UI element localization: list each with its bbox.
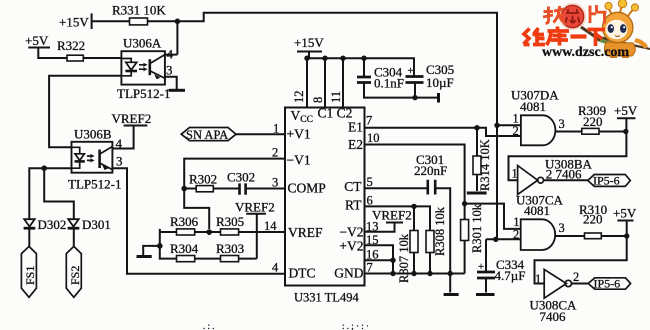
svg-text:: . ; · : ·: : . ; · : · xyxy=(342,321,369,330)
svg-text:4: 4 xyxy=(167,47,174,62)
svg-text:R308 10k: R308 10k xyxy=(433,206,447,256)
svg-text:VREF2: VREF2 xyxy=(235,200,275,215)
svg-text:14: 14 xyxy=(264,219,277,233)
svg-text:. : .: . : . xyxy=(203,321,215,330)
svg-text:13: 13 xyxy=(366,220,379,234)
svg-text:8: 8 xyxy=(311,97,325,103)
svg-text:C1 C2: C1 C2 xyxy=(318,106,353,121)
svg-text:3: 3 xyxy=(116,154,123,169)
svg-text:3: 3 xyxy=(166,63,173,78)
svg-text:2 7406: 2 7406 xyxy=(546,167,582,182)
svg-text:−V2: −V2 xyxy=(339,225,363,240)
svg-text:R301 10k: R301 10k xyxy=(470,203,484,253)
svg-text:4081: 4081 xyxy=(520,99,546,114)
svg-text:11: 11 xyxy=(329,91,343,103)
svg-text:220nF: 220nF xyxy=(414,163,447,178)
svg-text:D301: D301 xyxy=(82,217,111,232)
svg-text:U306B: U306B xyxy=(74,127,112,142)
svg-text:7: 7 xyxy=(366,114,372,128)
svg-text:VREF2: VREF2 xyxy=(112,111,152,126)
svg-text:U306A: U306A xyxy=(123,36,162,51)
svg-text:12: 12 xyxy=(292,91,306,104)
svg-text:E1: E1 xyxy=(348,120,363,135)
svg-text:2: 2 xyxy=(513,124,519,138)
svg-text:+15V: +15V xyxy=(294,35,324,50)
svg-text:R304: R304 xyxy=(170,241,199,256)
svg-text:+: + xyxy=(408,65,414,77)
svg-text:10: 10 xyxy=(367,131,380,145)
svg-text:+5V: +5V xyxy=(614,103,638,118)
svg-text:FS1: FS1 xyxy=(23,266,37,285)
svg-text:D302: D302 xyxy=(38,217,67,232)
svg-text:IP5-6: IP5-6 xyxy=(593,174,620,188)
svg-text:2: 2 xyxy=(272,146,278,160)
svg-text:+15V: +15V xyxy=(59,15,89,30)
svg-text:1: 1 xyxy=(512,167,518,181)
svg-text:R302: R302 xyxy=(189,172,217,187)
svg-text:+5V: +5V xyxy=(613,206,637,221)
svg-text:+: + xyxy=(478,261,484,273)
svg-text:5: 5 xyxy=(367,175,373,189)
svg-text:E2: E2 xyxy=(348,137,363,152)
svg-text:COMP: COMP xyxy=(288,180,326,195)
svg-text:RT: RT xyxy=(345,198,362,213)
svg-text:16: 16 xyxy=(366,248,379,262)
svg-text:220: 220 xyxy=(583,114,603,129)
svg-text:4.7µF: 4.7µF xyxy=(495,268,526,283)
svg-text:C302: C302 xyxy=(227,170,255,185)
svg-text:IP5-6: IP5-6 xyxy=(594,277,621,291)
svg-text:3: 3 xyxy=(559,117,565,131)
svg-text:1: 1 xyxy=(273,122,279,136)
svg-text:7: 7 xyxy=(367,261,373,275)
svg-text:www.dzsc.com: www.dzsc.com xyxy=(542,45,629,60)
svg-text:+5V: +5V xyxy=(25,33,49,48)
svg-text:SN APA: SN APA xyxy=(186,128,228,142)
svg-text:R303: R303 xyxy=(216,241,244,256)
svg-text:GND: GND xyxy=(334,266,363,281)
svg-text:CT: CT xyxy=(344,179,362,194)
svg-text:FS2: FS2 xyxy=(68,266,82,285)
svg-text:VREF: VREF xyxy=(288,225,323,240)
svg-text:+V1: +V1 xyxy=(287,127,311,142)
svg-text:3: 3 xyxy=(272,176,278,190)
svg-text:2: 2 xyxy=(513,227,519,241)
svg-text:6: 6 xyxy=(367,194,373,208)
svg-text:R331 10K: R331 10K xyxy=(112,3,166,18)
svg-text:7406: 7406 xyxy=(540,309,567,324)
svg-text:15: 15 xyxy=(366,233,379,247)
svg-text:R305: R305 xyxy=(216,214,244,229)
svg-text:R314 10K: R314 10K xyxy=(478,139,492,191)
svg-text:R307 10k: R307 10k xyxy=(397,233,411,283)
svg-text:VCC: VCC xyxy=(291,108,313,125)
svg-text:10µF: 10µF xyxy=(426,75,454,90)
svg-text:3: 3 xyxy=(559,221,565,235)
svg-text:4: 4 xyxy=(272,261,279,275)
svg-text:4: 4 xyxy=(116,136,123,151)
svg-text:DTC: DTC xyxy=(289,266,316,281)
svg-text:R322: R322 xyxy=(57,38,85,53)
svg-text:TLP512-1: TLP512-1 xyxy=(68,177,121,192)
svg-text:0.1nF: 0.1nF xyxy=(374,76,404,91)
svg-text:+V2: +V2 xyxy=(339,239,363,254)
svg-text:−V1: −V1 xyxy=(287,153,311,168)
svg-text:TLP512-1: TLP512-1 xyxy=(117,86,170,101)
svg-text:1: 1 xyxy=(535,272,541,286)
svg-text:U331 TL494: U331 TL494 xyxy=(294,291,359,305)
svg-text:R306: R306 xyxy=(170,214,199,229)
svg-text:220: 220 xyxy=(583,212,603,227)
svg-text:2: 2 xyxy=(573,270,579,284)
svg-text:4081: 4081 xyxy=(524,203,550,218)
